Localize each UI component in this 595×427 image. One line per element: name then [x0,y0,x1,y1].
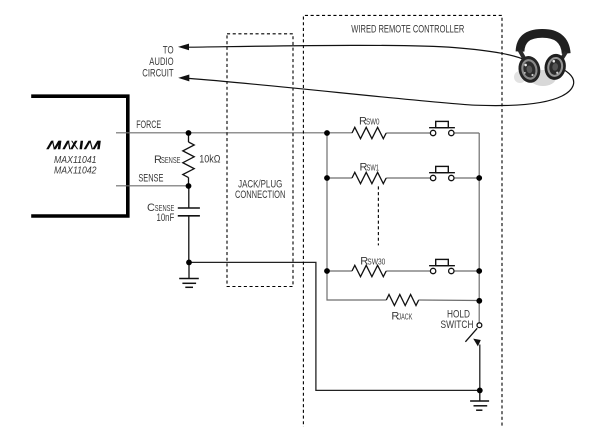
svg-text:JACK: JACK [398,312,412,321]
svg-text:SW30: SW30 [367,257,385,266]
dashed box JACK/PLUG CONNECTION [227,34,293,287]
pushbutton SW1 [429,166,455,180]
svg-text:WIRED REMOTE CONTROLLER: WIRED REMOTE CONTROLLER [351,24,464,36]
svg-text:CIRCUIT: CIRCUIT [142,67,173,79]
dashed box WIRED REMOTE CONTROLLER [303,15,502,427]
wire switch to ground node [479,345,481,391]
svg-text:C: C [147,202,155,214]
hold switch SW (open) [465,323,481,342]
wire headphone cable 1 [188,45,529,61]
svg-text:SW1: SW1 [367,164,380,173]
pushbutton SW0 [429,121,455,135]
svg-text:SW0: SW0 [366,117,380,126]
svg-text:FORCE: FORCE [136,119,161,131]
wire right rail [478,133,480,322]
node bottom ground [477,388,483,394]
wire jack sleeve return [189,262,480,390]
wire FORCE net [116,132,479,134]
svg-text:CONNECTION: CONNECTION [235,189,285,201]
node right rail RJACK [476,298,482,304]
node FORCE/RSENSE [186,130,192,136]
node left rail RSW1 [324,175,330,181]
wire SENSE net [116,185,189,187]
svg-text:SWITCH: SWITCH [441,319,474,331]
arrow to audio (top) [178,44,189,51]
svg-text:SENSE: SENSE [161,156,181,165]
resistor RSENSE [183,133,194,186]
svg-text:TO: TO [163,45,174,57]
svg-text:AUDIO: AUDIO [149,56,174,68]
pushbutton SW30 [429,259,455,273]
capacitor CSENSE [178,186,200,262]
IC U1 MAX11041/MAX11042 box [31,96,128,216]
wire left rail [327,133,386,300]
node CSENSE/ground [186,260,192,266]
resistor RSW30 [352,265,386,276]
hold switch arrowhead [473,339,481,347]
resistor RSW0 [352,127,386,138]
ellipsis continuation dashed line [377,186,379,245]
arrow to audio (bottom) [178,75,189,82]
node left rail top [324,130,330,136]
wire RSW1 row [327,177,479,179]
node right rail RSW1 [476,175,482,181]
node SENSE/CSENSE [186,183,192,189]
svg-text:10kΩ: 10kΩ [199,153,220,165]
wire headphone cable 2 [189,67,574,105]
ground G1 (below CSENSE) [179,262,199,287]
headphones icon [514,33,568,86]
ground G2 (bottom right) [470,390,489,410]
svg-text:10nF: 10nF [157,212,175,224]
Maxim logo [46,141,101,150]
node right rail RSW30 [476,268,482,274]
node left rail RSW30 [324,268,330,274]
resistor RSW1 [352,172,386,183]
svg-text:MAX11042: MAX11042 [54,164,97,176]
resistor RJACK [386,295,418,306]
wire RJACK to rail [419,299,480,302]
wire RSW30 row [327,270,479,272]
svg-text:SENSE: SENSE [138,172,163,184]
